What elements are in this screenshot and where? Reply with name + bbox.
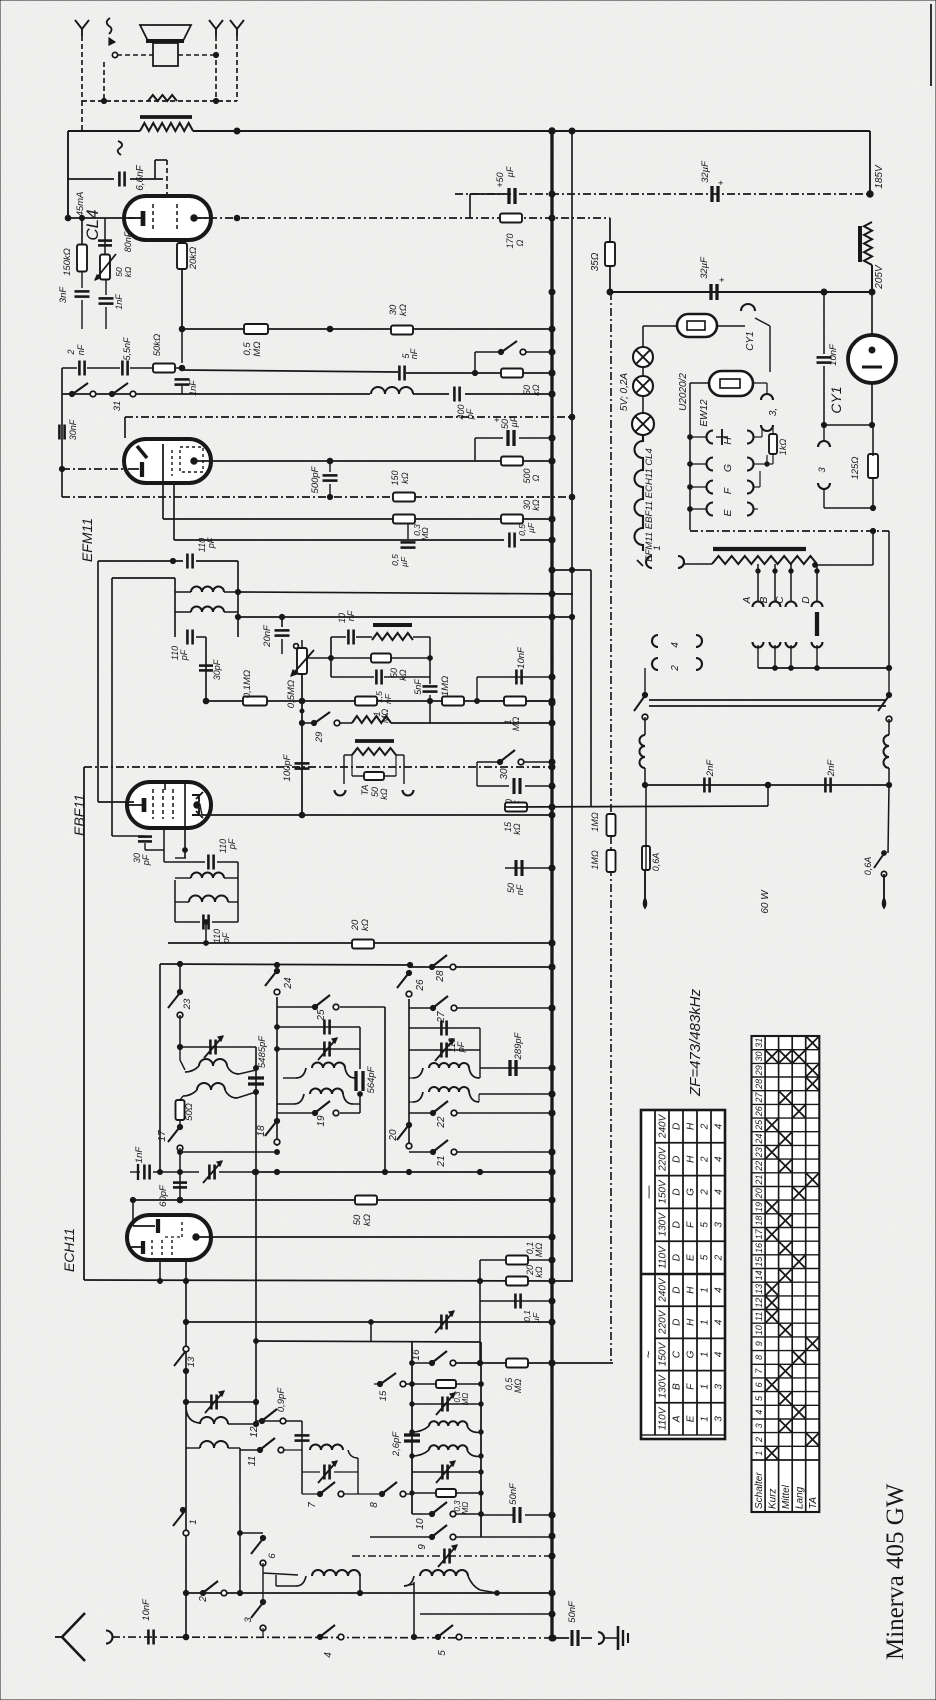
wire s7 l: [302, 1493, 320, 1495]
svg-text:22: 22: [754, 1161, 764, 1172]
potentiometer 0,5MΩ: [291, 644, 314, 676]
junction rail: [549, 458, 555, 464]
junction: [234, 128, 240, 134]
wire s7 r: [343, 1493, 382, 1495]
tube EBF11 envelope: [127, 782, 211, 828]
junction: [410, 1402, 414, 1406]
svg-text:H: H: [686, 1155, 697, 1163]
wire s11 r: [283, 1449, 302, 1451]
inductor mains choke R: [884, 735, 890, 768]
switch S26: [397, 970, 426, 996]
wire s29 l: [302, 722, 311, 724]
junction: [428, 656, 433, 661]
wire B+ rail top right: [193, 130, 870, 132]
wire AVC dash y417: [125, 416, 572, 418]
svg-text:1: 1: [700, 1416, 711, 1422]
wire efm g2: [162, 483, 164, 519]
wire y540 b: [520, 539, 552, 541]
svg-text:CY1: CY1: [745, 331, 756, 350]
svg-text:24: 24: [283, 977, 294, 990]
wire y677 a: [331, 676, 374, 678]
wire x480: [479, 1028, 481, 1078]
resistor 0,5MΩ: [242, 324, 268, 357]
resistor 20kΩ ech: [506, 1265, 544, 1286]
resistor 50kΩ osc: [352, 1196, 377, 1226]
wire ech g: [132, 1200, 134, 1226]
junction rail: [549, 1065, 555, 1071]
svg-text:2: 2: [754, 1437, 764, 1443]
capacitor 0,5µF b: [509, 522, 536, 547]
wire s15 l: [374, 1383, 380, 1385]
resistor 20kΩ anode: [177, 243, 199, 270]
junction rail: [549, 1533, 555, 1539]
wire pot wiper: [305, 657, 307, 659]
wire pot dn: [301, 674, 303, 815]
svg-text:170: 170: [505, 233, 515, 248]
wire x358: [357, 1458, 359, 1494]
junction: [235, 614, 240, 619]
svg-text:25: 25: [754, 1119, 764, 1131]
inductor IF1a: [175, 587, 238, 593]
tap A: [742, 564, 764, 607]
wire oscc2 r: [228, 1447, 240, 1449]
wire AVC y767: [84, 766, 552, 768]
wire 1nf r: [153, 1171, 199, 1173]
junction: [549, 783, 555, 789]
capacitor 1,5nF: [374, 670, 393, 704]
wire antenna line: [112, 1637, 552, 1638]
svg-text:2: 2: [700, 1189, 711, 1196]
junction: [279, 614, 284, 619]
wire x62 b: [61, 394, 63, 469]
junction: [59, 466, 64, 471]
capacitor 1nF ech: [134, 1146, 150, 1180]
fuse 0,6A: [642, 846, 661, 871]
tube EBF11 internals: [129, 782, 203, 827]
wire y1341: [256, 1341, 481, 1342]
junction: [407, 962, 412, 967]
junction: [170, 558, 175, 563]
wire y1515: [481, 1514, 513, 1516]
capacitor 110pF b1: [170, 630, 193, 662]
wire ift1 l: [174, 578, 176, 637]
svg-text:19: 19: [316, 1115, 327, 1127]
capacitor 564pF: [356, 1065, 377, 1093]
svg-text:7: 7: [307, 1502, 318, 1508]
wire 3nF dn: [81, 300, 83, 329]
wire y1556: [352, 1555, 552, 1557]
wire antlw r: [480, 1590, 497, 1593]
resistor 0,3MΩ b1: [436, 1380, 470, 1405]
trimmer osc L1: [318, 1038, 337, 1060]
svg-text:16: 16: [754, 1243, 764, 1253]
wire y368 b: [87, 367, 120, 369]
switch S8: [369, 1482, 406, 1508]
junction: [569, 414, 575, 420]
svg-text:—: —: [641, 1186, 656, 1199]
wire y1537 r: [481, 1536, 552, 1538]
svg-text:30pF: 30pF: [212, 659, 222, 680]
junction: [472, 370, 477, 375]
wire x240: [239, 1448, 241, 1593]
label 6.6nF: [135, 164, 146, 190]
wire y368 f: [406, 372, 503, 374]
svg-text:15: 15: [378, 1390, 389, 1401]
wire grid efm: [62, 468, 141, 470]
wire s10 r: [455, 1513, 481, 1515]
switch S28: [429, 955, 455, 983]
svg-text:B: B: [672, 1383, 683, 1390]
wire x182 up: [181, 329, 183, 363]
resistor 1MΩ c: [503, 697, 526, 732]
junction: [235, 589, 240, 594]
junction: [254, 1090, 259, 1095]
svg-text:G: G: [686, 1350, 697, 1358]
wire ta l: [344, 754, 352, 756]
resistor 15kΩ: [503, 803, 527, 835]
svg-text:1nF: 1nF: [134, 1146, 145, 1164]
wire ech anode: [196, 1236, 552, 1238]
svg-text:1kΩ: 1kΩ: [778, 439, 788, 456]
junction rail: [549, 1278, 555, 1284]
tube EFM11 internals: [128, 444, 203, 483]
wire 185V drop: [869, 131, 871, 194]
wire screen feed: [67, 131, 69, 218]
wire y1402: [186, 1401, 256, 1403]
svg-text:pF: pF: [227, 838, 237, 850]
output transformer primary: [140, 117, 193, 131]
tube CL4 envelope: [124, 196, 211, 240]
svg-text:1MΩ: 1MΩ: [440, 676, 451, 696]
wire taps bus: [758, 667, 889, 669]
wire y967 r: [410, 966, 552, 968]
resistor 0,3MΩ b2: [436, 1489, 470, 1514]
junction: [183, 1590, 188, 1595]
svg-text:EW12: EW12: [699, 399, 710, 427]
junction: [477, 1278, 482, 1283]
junction: [549, 128, 555, 134]
wire lamp link: [642, 367, 644, 376]
tube U2020 ballast: [677, 314, 717, 337]
wire x414: [413, 1582, 415, 1637]
junction rail: [549, 1091, 555, 1097]
wire y508: [824, 507, 873, 509]
svg-text:10nF: 10nF: [141, 1598, 152, 1621]
wire det box r: [429, 637, 431, 684]
junction: [549, 865, 555, 871]
switch S7: [307, 1482, 344, 1508]
wire f link: [753, 486, 760, 488]
junction: [549, 391, 555, 397]
junction: [479, 1491, 483, 1495]
plug pin R: [883, 874, 886, 908]
junction rail: [549, 1635, 555, 1641]
capacitor 5485pF: [248, 1035, 268, 1084]
hook cy h2: [818, 483, 830, 489]
switch S27: [430, 996, 456, 1024]
mains dropper: [712, 556, 817, 564]
capacitor 5,5nF: [122, 337, 132, 376]
svg-text:28: 28: [435, 970, 446, 983]
wire x371: [370, 1322, 372, 1341]
wire CL4 grid: [68, 217, 134, 219]
junction: [765, 462, 769, 466]
wire EBF anode: [200, 805, 202, 815]
trimmer osc a: [205, 1391, 224, 1413]
wire x263 b: [262, 1593, 264, 1602]
svg-text:nF: nF: [346, 610, 356, 621]
junction: [549, 759, 555, 765]
svg-text:EFM11 EBF11 ECH11 CL4: EFM11 EBF11 ECH11 CL4: [644, 448, 655, 562]
junction: [213, 52, 218, 57]
svg-text:1: 1: [700, 1320, 711, 1326]
wire x277: [276, 997, 278, 1146]
switch S13: [174, 1346, 197, 1373]
junction: [821, 422, 826, 427]
wire trim row: [412, 1403, 481, 1405]
wire y677: [477, 676, 552, 678]
junction: [253, 1399, 258, 1404]
wire lt coil l: [283, 1077, 296, 1079]
switch S1: [173, 1507, 199, 1535]
resistor 30kΩ: [388, 304, 413, 334]
junction: [158, 1279, 163, 1284]
wire y658 b: [391, 657, 430, 659]
junction: [327, 494, 332, 499]
label heater chain: [644, 448, 655, 562]
svg-text:150V: 150V: [658, 1341, 669, 1366]
junction: [178, 1170, 183, 1175]
wire h link: [753, 436, 762, 438]
wire s21 r: [456, 1151, 552, 1153]
wire CL4 anode: [193, 217, 610, 219]
junction: [886, 665, 891, 670]
svg-text:+: +: [717, 277, 727, 282]
wire x256: [255, 1047, 257, 1424]
label ECH11: [61, 1228, 77, 1272]
wire y1573: [263, 1573, 298, 1575]
wire 500pF: [329, 461, 331, 472]
svg-text:289pF: 289pF: [513, 1031, 524, 1060]
svg-text:B: B: [759, 596, 770, 603]
capacitor 50µF b: [492, 416, 519, 446]
capacitor 20nF: [262, 624, 290, 648]
tube EFM11 envelope: [124, 439, 211, 483]
label 1: [637, 545, 663, 566]
wire ift2 r: [237, 862, 239, 922]
label 3: [768, 408, 779, 416]
capacitor 50nF gnd: [556, 1600, 592, 1646]
junction: [204, 920, 209, 925]
wire y368 c: [130, 367, 153, 369]
svg-text:F: F: [686, 1221, 697, 1228]
wire ech k: [159, 1259, 161, 1281]
junction: [254, 1066, 259, 1071]
junction: [213, 98, 218, 103]
switch S5: [435, 1625, 461, 1656]
label 45mA: [75, 192, 86, 217]
resistor 50kΩ det2: [371, 654, 408, 681]
wire ift1 topr: [196, 560, 238, 562]
wire r03b r: [456, 1492, 481, 1494]
wire x573: [571, 131, 573, 1281]
wire 1nf lead: [130, 1171, 140, 1173]
switch S23: [168, 989, 193, 1017]
junction: [549, 1278, 555, 1284]
resistor 0,5MΩ ech: [504, 1359, 528, 1394]
plug pin L: [644, 871, 647, 908]
capacitor 1nF cath: [99, 294, 125, 310]
wire y417 drop: [124, 417, 126, 438]
resistor 50kΩ grid: [152, 334, 175, 373]
capacitor 2nF: [66, 344, 86, 375]
junction: [549, 720, 555, 726]
mains dropper bar: [713, 547, 806, 551]
wire ta r: [396, 754, 404, 756]
capacitor 2nF a: [704, 759, 716, 793]
lamp dial 2: [633, 376, 653, 396]
hook gnd: [598, 1632, 604, 1644]
switch S24: [265, 968, 294, 994]
wire ta l2: [343, 755, 345, 784]
wire y703: [477, 700, 552, 702]
resistor 35Ω: [590, 242, 615, 271]
svg-text:D: D: [672, 1254, 683, 1261]
svg-text:29: 29: [754, 1065, 764, 1076]
wire sw left: [475, 351, 498, 353]
junction: [549, 370, 555, 376]
wire y1533: [240, 1532, 263, 1534]
wire y1421: [256, 1420, 302, 1422]
svg-text:11: 11: [247, 1456, 258, 1466]
capacitor 10nF b: [516, 646, 527, 685]
label EW12: [699, 399, 710, 427]
wire e link: [753, 508, 758, 510]
wire ift2 tl2: [175, 857, 186, 859]
wire x263 c: [262, 1628, 264, 1637]
junction: [569, 494, 575, 500]
junction rail: [549, 567, 555, 573]
svg-text:17: 17: [754, 1228, 764, 1239]
wire y637 b: [356, 636, 372, 638]
junction: [477, 1169, 482, 1174]
junction: [275, 1047, 280, 1052]
svg-text:5485pF: 5485pF: [257, 1035, 268, 1068]
junction: [183, 1278, 188, 1283]
svg-text:2: 2: [198, 1596, 209, 1603]
junction rail: [549, 435, 555, 441]
svg-text:Ω: Ω: [515, 239, 525, 246]
junction rail: [549, 289, 555, 295]
inductor osc c2: [200, 1441, 228, 1448]
junction: [203, 698, 209, 704]
resistor 1MΩ avc1: [590, 812, 616, 836]
wire y1152 l: [180, 1151, 277, 1153]
svg-text:µF: µF: [505, 166, 515, 177]
junction: [549, 1065, 555, 1071]
wire ift2 tr: [217, 861, 238, 863]
wire if2 down: [205, 922, 207, 943]
svg-text:~: ~: [641, 1350, 656, 1358]
wire 1nF: [105, 280, 107, 295]
wire sw stub: [526, 351, 552, 353]
junction: [479, 1454, 483, 1458]
svg-text:E: E: [686, 1415, 697, 1422]
svg-text:26: 26: [415, 979, 426, 992]
junction rail: [549, 191, 555, 197]
svg-text:130V: 130V: [658, 1212, 669, 1237]
table switch positions: [752, 1036, 820, 1512]
junction: [869, 289, 875, 295]
switch S15: [377, 1373, 405, 1401]
junction rail: [549, 614, 555, 620]
junction: [183, 1634, 189, 1640]
wire pot up: [301, 640, 303, 648]
svg-text:1nF: 1nF: [114, 294, 124, 310]
svg-text:kΩ: kΩ: [534, 1266, 544, 1278]
svg-text:0,1MΩ: 0,1MΩ: [242, 670, 253, 698]
wire 20k dn: [181, 269, 183, 329]
wire rt c2l: [409, 1101, 413, 1103]
inductor osc R1: [413, 1063, 479, 1078]
wire mains l2: [644, 717, 646, 735]
junction rail: [549, 1298, 555, 1304]
wire mixtrim l: [302, 1471, 320, 1473]
svg-text:0,5MΩ: 0,5MΩ: [286, 680, 297, 708]
wire h link2: [761, 428, 763, 437]
wire 125 dn: [872, 477, 874, 508]
wire mains r2: [888, 719, 890, 735]
wire x62 c: [61, 469, 63, 497]
wire lt c2l: [277, 1103, 294, 1105]
wire s15 r: [406, 1383, 437, 1385]
junction: [813, 563, 818, 568]
wire 05uF stub: [407, 523, 409, 539]
inductor osc left1: [185, 1059, 239, 1074]
wire AF line: [182, 328, 552, 330]
inductor osc R2: [413, 1087, 479, 1102]
wire y1301: [480, 1300, 552, 1302]
wire det line2: [413, 393, 449, 395]
junction: [427, 698, 432, 703]
svg-text:205V: 205V: [874, 264, 885, 290]
wire 50uF lead2: [519, 437, 552, 439]
wire ift1 r: [237, 561, 239, 637]
svg-text:TA: TA: [808, 1497, 819, 1509]
capacitor 6.6nF: [68, 172, 163, 187]
wire y637 a: [331, 636, 346, 638]
svg-text:240V: 240V: [658, 1277, 669, 1303]
svg-text:6,6nF: 6,6nF: [135, 164, 146, 190]
speaker terminal Y3: [209, 20, 223, 36]
svg-text:µF: µF: [509, 416, 519, 427]
svg-text:24: 24: [754, 1134, 764, 1145]
switch S29: [311, 712, 339, 743]
svg-text:MΩ: MΩ: [461, 1502, 470, 1515]
capacitor 0,5µF a: [390, 542, 416, 567]
capacitor 5nF b: [413, 679, 438, 695]
svg-text:4: 4: [670, 642, 681, 648]
wire x186 ant: [185, 1402, 187, 1637]
svg-text:D: D: [672, 1156, 683, 1163]
svg-text:1: 1: [700, 1287, 711, 1293]
wire s23 up: [179, 964, 181, 992]
plug 2: [652, 658, 702, 672]
switch S12: [249, 1409, 286, 1438]
junction: [178, 1150, 183, 1155]
svg-text:20: 20: [388, 1129, 399, 1142]
svg-text:H: H: [722, 437, 734, 445]
